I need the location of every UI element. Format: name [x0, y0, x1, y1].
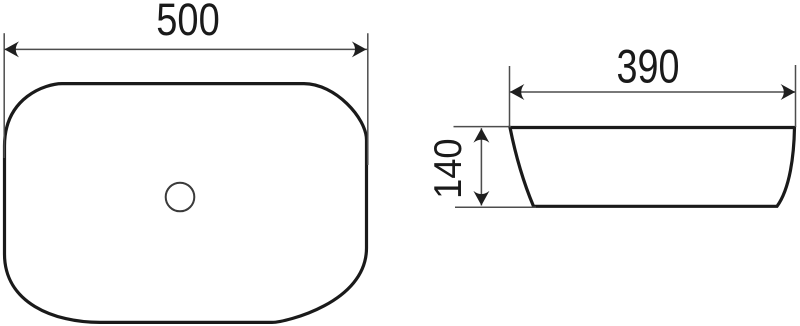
dim 500 extension line right	[367, 33, 369, 165]
dim 390 extension line left	[509, 66, 511, 127]
dim 140 dimension line	[480, 128, 482, 205]
dim 140 extension line top	[454, 126, 512, 128]
svg-text:390: 390	[616, 41, 679, 94]
dim 390 arrow right	[781, 84, 796, 100]
dim 390 extension line right	[795, 65, 797, 127]
dim 390 arrow left	[510, 84, 525, 100]
dim 500 dimension line	[5, 48, 368, 50]
dim 500 arrow left	[4, 41, 19, 57]
dim 140 extension line bottom	[455, 206, 536, 208]
drain hole circle	[166, 183, 195, 212]
dim 140 arrow up	[473, 128, 489, 143]
side view profile	[510, 128, 795, 207]
dim 500 extension line left	[3, 33, 5, 158]
svg-text:500: 500	[156, 0, 219, 45]
dim 390 dimension line	[510, 91, 795, 93]
dim 140 arrow down	[473, 191, 489, 206]
basin top view outline	[5, 84, 367, 323]
svg-text:140: 140	[426, 138, 469, 199]
dim 500 arrow right	[352, 41, 367, 57]
